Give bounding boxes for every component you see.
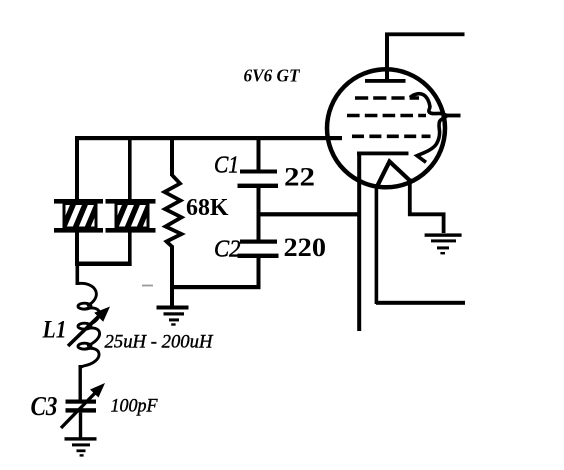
cathode — [357, 152, 409, 156]
plate (anode) — [365, 79, 406, 83]
crystal X2 — [106, 199, 156, 233]
svg-text:68K: 68K — [186, 195, 229, 221]
svg-text:220: 220 — [284, 233, 327, 262]
wire top grid bus — [75, 136, 342, 140]
wire junction to L1 — [76, 266, 80, 285]
crystal X1 — [54, 199, 103, 233]
wire filament right lead — [410, 179, 444, 234]
wire faint scan artifact — [142, 285, 153, 287]
wire resistor bottom lead — [170, 246, 174, 307]
svg-text:L1: L1 — [42, 317, 67, 344]
svg-text:C1: C1 — [214, 153, 239, 179]
capacitor C3 — [66, 400, 97, 413]
wire crystal bottom junction — [75, 262, 132, 267]
C3 variable arrow — [61, 383, 105, 428]
wire grid cap output right — [445, 114, 461, 118]
inductor L1 — [78, 283, 100, 367]
wire C3 to ground — [79, 413, 82, 438]
wire C1 bottom lead — [257, 188, 261, 216]
beam plate squiggle — [410, 94, 446, 163]
wire L1 to C3 — [79, 365, 82, 400]
grid row 3 — [352, 135, 431, 139]
wire crystal X2 bottom lead — [128, 232, 132, 266]
svg-text:25uH - 200uH: 25uH - 200uH — [105, 332, 214, 353]
svg-text:6V6 GT: 6V6 GT — [244, 66, 301, 86]
svg-text:C2: C2 — [214, 237, 241, 263]
wire R1/C2 bottom node — [172, 285, 261, 289]
grid row 2 — [347, 114, 426, 118]
ground (filament) — [425, 233, 462, 254]
wire resistor top lead — [170, 138, 174, 176]
ground (C3) — [65, 437, 97, 456]
L1 variable arrow — [68, 307, 110, 347]
svg-text:100pF: 100pF — [111, 396, 158, 417]
wire plate top lead — [385, 35, 389, 81]
wire heater output bottom — [376, 301, 465, 305]
capacitor C2 — [238, 240, 279, 259]
tube V1 envelope — [327, 69, 445, 187]
resistor R1 68K — [165, 175, 182, 247]
filament (heater) — [377, 162, 410, 188]
wire junction to C2 — [257, 216, 261, 240]
wire top output — [385, 32, 465, 36]
wire crystal X1 top lead — [75, 138, 79, 201]
capacitor C1 — [238, 170, 279, 189]
wire C1/C2 junction to cathode — [258, 212, 359, 216]
wire C2 bottom lead — [257, 258, 261, 289]
wire crystal X1 bottom lead — [75, 232, 79, 266]
ground (R1) — [157, 306, 189, 326]
wire crystal X2 top lead — [128, 138, 132, 201]
wire cathode lead — [357, 153, 361, 331]
svg-text:C3: C3 — [31, 391, 58, 421]
wire filament left lead — [375, 187, 379, 304]
wire C1 top lead — [257, 138, 261, 170]
svg-text:22: 22 — [284, 163, 315, 192]
grid row 1 — [355, 96, 419, 100]
